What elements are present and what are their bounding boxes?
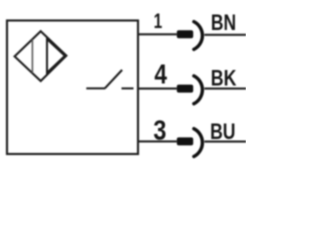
svg-text:1: 1 — [154, 8, 163, 33]
svg-text:3: 3 — [153, 114, 166, 145]
svg-text:BU: BU — [210, 119, 235, 144]
svg-text:4: 4 — [154, 59, 167, 90]
svg-text:BN: BN — [211, 10, 236, 35]
svg-text:BK: BK — [211, 65, 237, 90]
